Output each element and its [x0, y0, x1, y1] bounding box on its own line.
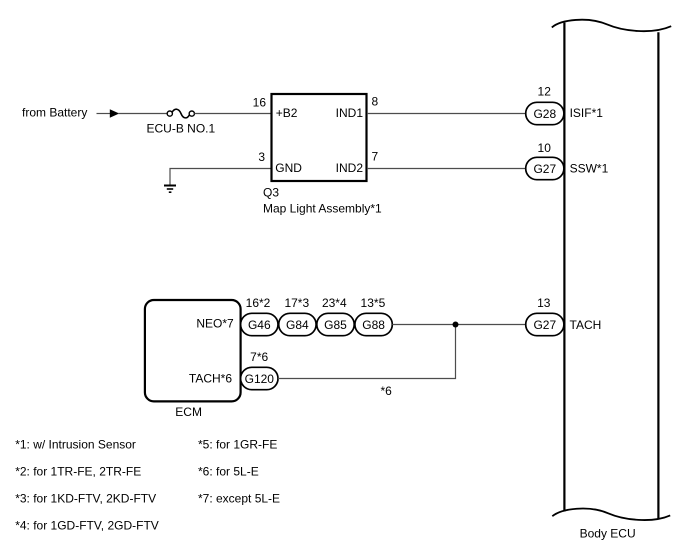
svg-text:*3: for 1KD-FTV, 2KD-FTV: *3: for 1KD-FTV, 2KD-FTV [15, 492, 156, 506]
svg-text:Q3: Q3 [263, 186, 279, 200]
svg-text:G88: G88 [362, 318, 385, 332]
wire IND2 to G27 [367, 168, 526, 170]
wire GND pin to ground [170, 169, 271, 186]
svg-text:IND2: IND2 [336, 161, 364, 175]
svg-text:3: 3 [258, 150, 265, 164]
ground [164, 186, 176, 193]
svg-text:G27: G27 [533, 162, 556, 176]
svg-text:G85: G85 [324, 318, 347, 332]
svg-text:IND1: IND1 [336, 106, 364, 120]
svg-text:Map Light Assembly*1: Map Light Assembly*1 [263, 202, 382, 216]
svg-text:7*6: 7*6 [250, 350, 268, 364]
body ECU top wave [552, 20, 671, 31]
wire fuse to +B2 pin [194, 113, 271, 115]
connector G27 SSW [526, 157, 564, 179]
svg-text:7: 7 [372, 149, 379, 163]
body ECU right line [657, 32, 659, 519]
svg-text:G28: G28 [533, 107, 556, 121]
svg-text:TACH*6: TACH*6 [189, 371, 232, 385]
svg-text:13*5: 13*5 [361, 296, 386, 310]
svg-text:*6: *6 [381, 384, 393, 398]
svg-text:12: 12 [538, 85, 552, 99]
svg-text:*4: for 1GD-FTV, 2GD-FTV: *4: for 1GD-FTV, 2GD-FTV [15, 519, 159, 533]
svg-text:*7: except 5L-E: *7: except 5L-E [198, 492, 280, 506]
fuse ECU-B NO.1 [167, 109, 194, 118]
svg-text:G120: G120 [245, 372, 275, 386]
svg-text:G84: G84 [286, 318, 309, 332]
connector G88 [355, 313, 392, 335]
svg-text:G46: G46 [248, 318, 271, 332]
svg-text:GND: GND [275, 161, 302, 175]
svg-text:ISIF*1: ISIF*1 [570, 106, 604, 120]
connector G84 [279, 313, 316, 335]
svg-text:ECU-B NO.1: ECU-B NO.1 [147, 121, 216, 135]
body ECU bottom wave [552, 509, 670, 521]
svg-text:16*2: 16*2 [246, 296, 271, 310]
svg-text:ECM: ECM [175, 405, 202, 419]
svg-text:*5: for 1GR-FE: *5: for 1GR-FE [198, 438, 277, 452]
svg-text:10: 10 [538, 141, 552, 155]
wire arrow to fuse [118, 113, 167, 115]
svg-text:13: 13 [537, 296, 551, 310]
svg-text:*2: for 1TR-FE, 2TR-FE: *2: for 1TR-FE, 2TR-FE [15, 465, 141, 479]
connector G27 TACH [526, 313, 564, 335]
junction dot [453, 322, 459, 328]
svg-text:23*4: 23*4 [322, 296, 347, 310]
svg-text:Body ECU: Body ECU [580, 527, 636, 541]
map light assembly box Q3 [272, 94, 367, 181]
svg-text:8: 8 [372, 95, 379, 109]
svg-text:*6: for 5L-E: *6: for 5L-E [198, 465, 259, 479]
connector G28 [526, 102, 564, 124]
svg-text:SSW*1: SSW*1 [570, 162, 609, 176]
connector G46 [241, 313, 278, 335]
svg-text:G27: G27 [533, 318, 556, 332]
ECM box [145, 300, 241, 401]
svg-text:16: 16 [253, 96, 267, 110]
svg-text:TACH: TACH [570, 318, 602, 332]
svg-text:+B2: +B2 [276, 106, 298, 120]
body ECU left line [563, 23, 565, 512]
arrow flow direction [110, 109, 119, 118]
connector G85 [317, 313, 354, 335]
wire IND1 to G28 [367, 113, 526, 115]
svg-text:NEO*7: NEO*7 [196, 317, 234, 331]
wire from battery to arrow [97, 113, 112, 115]
wire G120 to junction riser [278, 325, 456, 379]
connector G120 [241, 367, 278, 389]
svg-text:from Battery: from Battery [22, 106, 87, 120]
svg-text:17*3: 17*3 [284, 296, 309, 310]
wire G88 to junction to G27 [392, 324, 526, 326]
svg-text:*1: w/ Intrusion Sensor: *1: w/ Intrusion Sensor [15, 438, 136, 452]
